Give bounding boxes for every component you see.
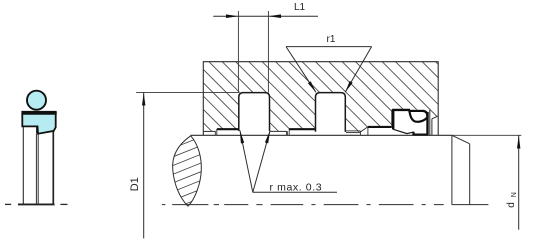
rod break lens hatching [167, 135, 207, 212]
housing right bottom chamfer [432, 116, 438, 119]
r max arrow right [265, 130, 270, 143]
installed seal bottom bar [412, 133, 428, 135]
svg-text:r1: r1 [327, 34, 336, 45]
seal bore double line b [37, 134, 39, 204]
r1 leader right leg [345, 47, 371, 93]
seal inner diameter line (left) [22, 127, 24, 205]
L1 arrow right [268, 14, 281, 18]
dimension L1 line [213, 15, 318, 17]
cap seal profile [22, 112, 55, 134]
installed o-ring right shoulder [423, 111, 428, 117]
step tick b [216, 129, 218, 135]
cap notch edge [36, 126, 38, 133]
installed seal body (white fill) [393, 110, 428, 135]
left figure centerline dash left [5, 203, 11, 205]
svg-text:D1: D1 [129, 177, 141, 191]
rod end chamfer [452, 135, 470, 144]
r max leader left leg [240, 130, 253, 192]
svg-text:dN: dN [506, 192, 518, 208]
r1 arrow right [345, 81, 353, 92]
housing left edge [202, 61, 204, 135]
D1 arrow [142, 93, 145, 106]
wiper groove right wall [429, 110, 431, 136]
dN dimension line [518, 135, 520, 229]
r1 leader left leg [286, 47, 316, 93]
L1 extension line right [267, 11, 269, 93]
wiper groove left wall [391, 110, 393, 127]
step tick a [214, 131, 216, 135]
dN arrow [517, 136, 520, 149]
step tick d [288, 129, 290, 135]
step tick e [359, 131, 361, 135]
installed seal right edge [426, 112, 428, 135]
bore before wiper groove (thick) [368, 126, 392, 128]
housing top edge [203, 61, 438, 63]
o-ring profile [27, 91, 46, 110]
axis centerline [162, 204, 488, 206]
seal bore double line a [35, 134, 37, 204]
r max arrow left [240, 130, 244, 143]
step face line [367, 127, 369, 135]
groove 2 outline [316, 93, 346, 132]
step tick c [286, 131, 288, 135]
D1 dimension line [143, 93, 145, 239]
r1 arrow left [308, 81, 316, 92]
r max leader shelf [253, 191, 337, 193]
groove 1 outline [239, 93, 270, 131]
installed seal bottom lip slant [393, 129, 413, 133]
svg-text:r max. 0.3: r max. 0.3 [270, 181, 323, 193]
bore double line after groove 2 a [346, 130, 360, 132]
rod break lens outline [173, 136, 202, 207]
svg-text:L1: L1 [294, 2, 306, 13]
wiper groove outer step [431, 119, 433, 136]
rod end inner line [451, 135, 453, 205]
installed seal notch bar [412, 132, 414, 135]
bore chamfer [361, 127, 368, 132]
rod end face [469, 144, 471, 205]
cap top flange bar [22, 112, 57, 115]
D1 extension line [136, 92, 239, 94]
installed o-ring bottom curve [409, 111, 427, 122]
left figure baseline [18, 203, 55, 205]
bore double line after groove 2 b [346, 132, 360, 134]
housing right edge [437, 61, 439, 135]
bore line between grooves [270, 130, 287, 132]
bore line left section [203, 130, 215, 132]
seal outer diameter line (right) [52, 131, 54, 204]
seal land before groove 2 (thick) [289, 128, 316, 130]
installed seal left edge [392, 110, 394, 130]
r1 leader bar [286, 46, 372, 48]
L1 arrow left [226, 14, 238, 18]
installed seal cap top bar [392, 109, 410, 111]
L1 extension line left [237, 11, 239, 93]
seal land before groove 1 (thick) [217, 128, 239, 130]
rod surface [190, 134, 452, 136]
housing hatching [129, 62, 513, 139]
r max leader right leg [253, 130, 270, 192]
dN extension line [452, 134, 521, 136]
left figure centerline dash right [60, 203, 67, 205]
installed o-ring top edge [409, 110, 423, 112]
